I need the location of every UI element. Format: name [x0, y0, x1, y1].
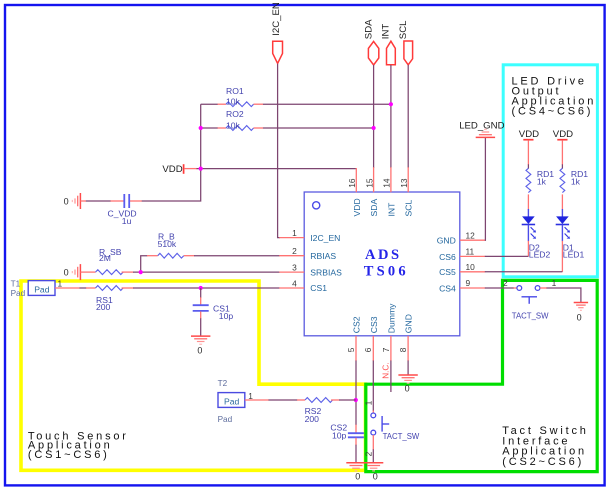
svg-text:LED_GND: LED_GND: [459, 120, 504, 131]
svg-text:SRBIAS: SRBIAS: [310, 268, 342, 278]
svg-text:RO2: RO2: [226, 109, 244, 119]
svg-text:GND: GND: [437, 236, 456, 246]
wire pin 5 lead: [355, 336, 357, 361]
svg-text:2: 2: [363, 451, 373, 456]
svg-text:VDD: VDD: [553, 129, 573, 140]
svg-text:1: 1: [248, 391, 253, 401]
wire pin 15 lead: [373, 167, 375, 192]
svg-text:0: 0: [355, 472, 360, 482]
wire pin 8 lead: [407, 336, 409, 361]
svg-text:(CS4~CS6): (CS4~CS6): [512, 106, 594, 118]
wire CS3 net vertical: [372, 361, 374, 412]
wire pin 2 lead: [279, 255, 304, 257]
connector T2 Pad: [218, 379, 254, 424]
wire pin 16 lead: [355, 168, 357, 192]
node junction VDD: [199, 167, 203, 171]
svg-text:TS06: TS06: [364, 263, 409, 279]
power VDD left: [162, 164, 197, 175]
wire pin 6 lead: [372, 336, 374, 361]
svg-text:1k: 1k: [537, 177, 547, 187]
svg-text:SCL: SCL: [404, 200, 414, 217]
wire pin 14 lead: [390, 167, 392, 192]
resistor R_SB 2M: [80, 247, 133, 275]
ground 0 at C_VDD: [64, 193, 86, 209]
svg-text:0: 0: [64, 267, 69, 277]
switch TACT_SW (CS4): [503, 278, 557, 320]
svg-text:Pad: Pad: [218, 415, 233, 424]
title Tact Switch Interface Application: [502, 425, 588, 468]
wire RS2 to CS2 junction: [339, 399, 356, 401]
svg-text:10p: 10p: [219, 311, 234, 321]
svg-text:LED1: LED1: [563, 249, 585, 259]
ground 0 at CS1: [191, 336, 210, 355]
svg-text:(CS2~CS6): (CS2~CS6): [502, 456, 584, 468]
wire switch to ground: [372, 449, 374, 463]
wire pin 7 lead: [390, 336, 392, 361]
svg-text:7: 7: [381, 347, 391, 352]
wire RS1 to pin 4: [133, 287, 280, 289]
svg-text:GND: GND: [404, 314, 414, 333]
capacitor C_VDD 1u: [86, 194, 142, 226]
wire pin 10 lead: [460, 271, 486, 273]
svg-text:0: 0: [373, 472, 378, 482]
port INT: [381, 24, 396, 65]
wire RO1 net to INT: [201, 103, 391, 105]
svg-text:200: 200: [305, 414, 320, 424]
wire CS5 net: [485, 271, 563, 273]
svg-text:14: 14: [382, 178, 392, 188]
svg-text:9: 9: [466, 278, 471, 288]
wire switch to ground: [547, 288, 581, 303]
wire left vertical bus to C_VDD: [142, 104, 201, 201]
svg-text:SDA: SDA: [369, 199, 379, 217]
svg-text:11: 11: [466, 247, 475, 257]
node junction CS1: [199, 286, 203, 290]
title Touch Sensor Application: [28, 431, 129, 461]
svg-text:200: 200: [96, 302, 111, 312]
svg-text:0: 0: [197, 345, 202, 355]
svg-text:CS4: CS4: [439, 283, 456, 293]
svg-text:12: 12: [466, 230, 476, 240]
svg-text:VDD: VDD: [352, 198, 362, 216]
diode D1 LED1: [556, 209, 585, 259]
svg-text:N.C.: N.C.: [382, 362, 391, 378]
wire pin 9 lead: [460, 287, 486, 289]
diode D2 LED2: [522, 209, 551, 259]
svg-text:10k: 10k: [226, 120, 241, 130]
svg-text:Pad: Pad: [34, 285, 50, 295]
capacitor CS1 10p: [193, 288, 234, 336]
wire INT vertical: [390, 65, 392, 168]
resistor RD1 1k (left): [526, 164, 554, 209]
wire pin 1 lead: [279, 237, 304, 239]
svg-text:VDD: VDD: [519, 129, 539, 140]
wire pin 11 lead: [460, 255, 486, 257]
ground 0 at CS4 switch: [574, 303, 588, 323]
wire CS6 net: [485, 255, 529, 257]
node junction CS2/RS2: [354, 398, 358, 402]
green region Tact Switch Interface Application: [366, 280, 597, 471]
resistor RS1 200: [86, 286, 134, 313]
svg-text:VDD: VDD: [162, 164, 182, 175]
wire pin 3 lead: [279, 271, 304, 273]
wire SCL vertical: [407, 65, 409, 168]
node junction RO2: [199, 126, 203, 130]
svg-text:10: 10: [466, 262, 476, 272]
switch TACT_SW (CS3): [363, 400, 420, 456]
svg-text:Dummy: Dummy: [387, 303, 397, 333]
svg-text:RO1: RO1: [226, 86, 244, 96]
wire Dummy stub N.C.: [382, 361, 391, 393]
wire I2C_EN vertical to pin 1: [278, 64, 280, 238]
wire R_B to pin 2: [194, 255, 280, 257]
ground LED_GND: [459, 120, 504, 137]
svg-text:TACT_SW: TACT_SW: [512, 311, 549, 320]
svg-text:0: 0: [64, 196, 69, 206]
ground 0 at R_SB: [64, 264, 81, 280]
ground 0 at CS3: [364, 463, 383, 482]
svg-text:8: 8: [398, 347, 408, 352]
svg-text:I2C_EN: I2C_EN: [310, 233, 340, 243]
svg-text:(CS1~CS6): (CS1~CS6): [28, 449, 110, 461]
power VDD for D2: [519, 129, 539, 165]
svg-text:CS3: CS3: [369, 316, 379, 333]
wire T2 to RS2: [269, 399, 298, 401]
svg-text:CS1: CS1: [310, 283, 327, 293]
svg-text:6: 6: [363, 347, 373, 352]
svg-text:5: 5: [346, 347, 356, 352]
wire GND to LED_GND: [484, 138, 487, 240]
svg-text:Pad: Pad: [224, 397, 240, 407]
svg-text:SDA: SDA: [363, 19, 374, 39]
wire CS4 net to switch: [485, 287, 514, 289]
yellow region Touch Sensor Application: [21, 281, 366, 470]
svg-text:INT: INT: [381, 24, 392, 40]
wire switch lower lead: [372, 435, 374, 450]
svg-text:ADS: ADS: [365, 247, 402, 263]
wire pin 12 lead: [460, 239, 486, 241]
port SDA: [363, 19, 378, 65]
svg-text:TACT_SW: TACT_SW: [383, 432, 420, 441]
wire CS2 net vertical: [355, 361, 357, 426]
wire R_SB junction to pin 3: [133, 271, 280, 273]
title LED Drive Output Application: [512, 75, 597, 117]
cyan region LED Drive Output Application: [503, 65, 597, 277]
svg-text:2: 2: [292, 246, 297, 256]
svg-text:1: 1: [58, 279, 63, 289]
resistor RD1 1k (right): [560, 164, 588, 209]
svg-text:4: 4: [292, 278, 297, 288]
wire pin 4 lead: [279, 287, 304, 289]
svg-text:510k: 510k: [158, 239, 177, 249]
svg-text:CS5: CS5: [439, 267, 456, 277]
svg-text:SCL: SCL: [398, 20, 409, 39]
resistor RS2 200: [297, 398, 340, 424]
node junction RO1-INT: [389, 102, 393, 106]
wire T2 pin 1 lead: [245, 399, 269, 401]
connector T1 Pad: [11, 279, 63, 299]
wire RO2 net to SDA: [201, 127, 374, 129]
svg-text:15: 15: [364, 178, 374, 188]
wire VDD net to pin 16: [197, 168, 357, 170]
ground 0 at pin 8: [398, 375, 417, 393]
port I2C_EN: [271, 2, 283, 63]
wire GND net: [407, 361, 409, 376]
svg-text:1: 1: [363, 400, 373, 405]
op-amp U1 ADS TS06 body: [304, 192, 460, 336]
wire D1 cathode lead: [561, 241, 563, 272]
node junction RBIAS/SRBIAS: [139, 270, 143, 274]
svg-text:1u: 1u: [122, 216, 132, 226]
svg-text:CS2: CS2: [352, 316, 362, 333]
wire D2 cathode lead: [527, 241, 529, 257]
svg-text:0: 0: [577, 313, 582, 323]
svg-text:1: 1: [552, 278, 557, 288]
capacitor CS2 10p: [330, 423, 364, 463]
svg-text:RBIAS: RBIAS: [310, 251, 336, 261]
svg-text:I2C_EN: I2C_EN: [271, 2, 282, 36]
svg-text:1: 1: [292, 228, 297, 238]
svg-text:CS6: CS6: [439, 252, 456, 262]
node junction RO2-SDA: [372, 126, 376, 130]
svg-text:T2: T2: [218, 379, 228, 388]
svg-text:13: 13: [399, 178, 409, 188]
wire T1 to RS1: [80, 287, 87, 289]
wire pin 13 lead: [407, 167, 409, 192]
ground 0 at CS2: [346, 463, 365, 482]
resistor R_B 510k: [141, 231, 195, 272]
svg-text:0: 0: [405, 383, 410, 393]
power VDD for D1: [553, 129, 573, 165]
svg-text:2: 2: [503, 278, 508, 288]
svg-text:Pad: Pad: [11, 289, 26, 298]
wire SDA vertical: [373, 65, 375, 168]
svg-text:10p: 10p: [332, 431, 347, 441]
svg-text:2M: 2M: [99, 253, 111, 263]
wire T1 pin 1 lead: [55, 287, 80, 289]
svg-text:10k: 10k: [226, 97, 241, 107]
svg-text:T1: T1: [11, 279, 21, 288]
svg-text:LED2: LED2: [529, 249, 551, 259]
svg-text:1k: 1k: [571, 177, 581, 187]
port SCL: [398, 20, 413, 65]
svg-text:INT: INT: [386, 202, 396, 217]
resistor RO1 10k: [218, 86, 264, 106]
resistor RO2 10k: [218, 109, 264, 130]
svg-text:3: 3: [292, 263, 297, 273]
